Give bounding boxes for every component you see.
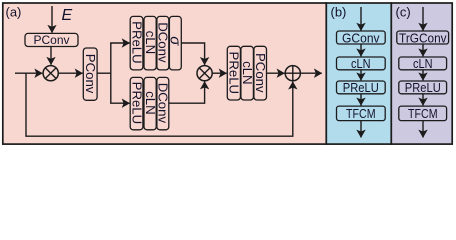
svg-text:PReLU: PReLU (129, 21, 144, 64)
svg-text:cLN: cLN (240, 61, 255, 84)
wire PReLU to TFCM (c) (422, 94, 424, 106)
box cLN (c) (399, 56, 447, 71)
box cLN (top row) (143, 16, 158, 70)
box sigma (166, 16, 183, 70)
wire GConv to cLN (360, 44, 362, 56)
box GConv (337, 30, 386, 45)
wire multiplier X2 to output stack (212, 72, 226, 74)
svg-text:cLN: cLN (351, 56, 371, 71)
wire E input arrow (51, 6, 53, 33)
wire split vertical (110, 43, 112, 103)
wire skip connection (26, 73, 293, 136)
svg-text:σ: σ (166, 36, 183, 46)
wire PConv to split (97, 72, 111, 74)
svg-text:(c): (c) (396, 5, 411, 20)
wire main input (15, 72, 42, 74)
svg-text:PConv: PConv (83, 54, 98, 94)
box PReLU (b) (337, 80, 386, 95)
svg-text:TFCM: TFCM (408, 106, 438, 121)
wire cLN to PReLU (c) (422, 70, 424, 81)
wire sigma to multiplier X2 (181, 43, 204, 65)
box PReLU (bottom row) (129, 77, 144, 129)
multiplier X1 (43, 66, 58, 81)
box DConv (top row) (156, 16, 171, 70)
svg-text:TFCM: TFCM (346, 106, 376, 121)
svg-text:GConv: GConv (342, 30, 380, 45)
wire stack to adder (267, 72, 285, 74)
multiplier X2 (197, 66, 212, 81)
box TrGConv (397, 30, 449, 45)
wire PConv to multiplier (50, 47, 52, 65)
svg-text:PReLU: PReLU (343, 80, 379, 95)
svg-text:cLN: cLN (143, 31, 158, 54)
wire PReLU to TFCM (360, 94, 362, 106)
box PReLU (output stack) (227, 46, 242, 100)
wire to top PReLU (110, 42, 130, 44)
svg-text:E: E (62, 7, 73, 24)
svg-text:PConv: PConv (33, 33, 69, 47)
box TFCM (b) (337, 106, 386, 121)
box PConv (output stack) (253, 46, 268, 100)
wire adder to output (300, 72, 321, 74)
svg-text:PReLU: PReLU (405, 80, 441, 95)
wire multiplier to PConv vertical (58, 72, 82, 74)
box PConv (top) (25, 33, 78, 47)
wire bottom DConv to multiplier X2 (169, 82, 205, 104)
adder (285, 66, 300, 81)
svg-text:PConv: PConv (253, 53, 268, 93)
wire input arrow (b) (360, 7, 362, 31)
wire to bottom PReLU (110, 102, 130, 104)
wire input arrow (c) (422, 7, 424, 31)
panel (c) background (391, 3, 452, 144)
box cLN (bottom row) (143, 77, 158, 129)
svg-text:(a): (a) (6, 5, 22, 20)
panel (a) background (3, 3, 327, 144)
svg-text:PReLU: PReLU (227, 52, 242, 95)
svg-text:TrGConv: TrGConv (399, 30, 447, 45)
wire output arrow (c) (422, 121, 424, 138)
svg-text:PReLU: PReLU (129, 82, 144, 125)
svg-text:cLN: cLN (143, 91, 158, 114)
svg-text:cLN: cLN (413, 56, 433, 71)
wire output arrow (b) (360, 121, 362, 138)
svg-text:(b): (b) (331, 5, 347, 20)
wire cLN to PReLU (360, 70, 362, 81)
box cLN (b) (337, 56, 386, 71)
box TFCM (c) (399, 106, 447, 121)
box PReLU (c) (399, 80, 447, 95)
box DConv (bottom row) (156, 77, 171, 129)
svg-text:DConv: DConv (156, 83, 171, 124)
box PReLU (top row) (129, 16, 144, 70)
panel (b) background (326, 3, 391, 144)
box cLN (output stack) (240, 46, 255, 100)
box PConv (vertical) (83, 48, 98, 100)
wire TrGConv to cLN (422, 44, 424, 56)
